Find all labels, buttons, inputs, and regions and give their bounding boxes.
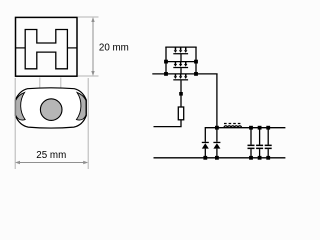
junction node (216.9,127.7) [215,126,219,130]
core top view left end (shaded) [16,92,26,120]
diode row 1 (three parallel diodes) [173,47,188,54]
dimension extension line left (25 mm) [14,78,16,169]
wire center stub row3 [180,80,182,107]
wire right drop vertical [216,74,218,128]
core parting line right segment [67,47,77,49]
diode row 2 (three parallel diodes) [173,62,188,69]
wire top rail [165,46,196,48]
dimension extension line bottom (20 mm) [78,75,99,77]
junction node (196,61.6) [194,60,198,64]
wire left vertical [165,47,167,74]
svg-text:25 mm: 25 mm [36,150,66,161]
projection line left (between views) [39,78,41,102]
wire center stub row2 [180,68,182,74]
diode row 3 (three parallel diodes) [173,74,188,81]
dimension line vertical (20 mm) [91,17,94,76]
core cross-section outer rectangle [16,17,78,76]
wire right vertical [195,47,197,74]
output bus [205,128,285,142]
junction node (259.6,127.7) [258,126,262,130]
core top view center post (circle) [40,99,62,121]
junction node (205.3,157.8) [203,156,207,160]
junction node (166,61.6) [164,60,168,64]
projection line right (between views) [60,78,62,102]
junction node (216.9,157.8) [215,156,219,160]
dimension extension line top (20 mm) [78,16,99,18]
diode D1 (to ground) [202,142,209,158]
ground rail [154,157,286,159]
resistor R [178,107,183,120]
capacitor C3 [265,128,272,158]
junction node (181,94.3) [179,92,183,96]
junction node (196,73.9) [194,72,198,76]
inductor L (coil bumps) [224,126,242,128]
core parting line left segment [16,47,26,49]
dimension line horizontal (25 mm) [15,161,88,164]
junction node (259.6,157.8) [258,156,262,160]
wire resistor to corner [154,120,182,127]
junction node (251,157.8) [249,156,253,160]
capacitor C1 [248,128,255,158]
core cross-section H-shaped center [25,30,67,69]
wire middle rail [166,61,196,63]
capacitor C2 [256,128,263,158]
junction node (268.2,157.8) [266,156,270,160]
wire center stub row1 [180,54,182,62]
diode D2 (to ground) [213,128,220,158]
wire lower rail (input) [152,73,217,75]
core top view outline (octagon) [15,88,86,128]
junction node (251,127.7) [249,126,253,130]
junction node (268.2,127.7) [266,126,270,130]
svg-text:20 mm: 20 mm [99,42,129,53]
dimension extension line right (25 mm) [87,78,89,169]
core top view right end (shaded) [76,92,86,120]
inductor core dashed line [224,123,242,125]
junction node (166,73.9) [164,72,168,76]
